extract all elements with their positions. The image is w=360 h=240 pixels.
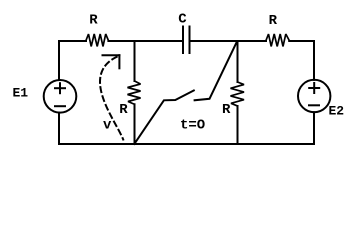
wire top-left segment [59, 40, 86, 42]
voltage source E1 [44, 80, 77, 113]
svg-text:t=O: t=O [180, 117, 205, 133]
voltage source E2 [298, 80, 330, 112]
switch right contact arm (to top node) [195, 42, 237, 101]
svg-text:E1: E1 [13, 86, 29, 101]
resistor R1 [86, 34, 108, 46]
resistor R2 [266, 34, 289, 46]
svg-text:C: C [178, 11, 187, 27]
wire top-right segment [289, 40, 314, 42]
wire mid-right stub top (top bus to R4) [237, 41, 239, 82]
wire right top (corner to E2) [313, 41, 315, 80]
wire bottom bus [59, 143, 314, 145]
arrow v head [103, 55, 120, 68]
capacitor C [183, 27, 190, 54]
wire mid-right stub bottom (R4 to bottom bus) [237, 106, 239, 144]
switch left blade (from bottom node) [134, 91, 194, 145]
wire top middle segment (R1 to capacitor) [108, 40, 182, 42]
wire mid-left stub bottom (R3 to bottom bus) [134, 104, 136, 144]
svg-text:R: R [89, 13, 98, 29]
svg-text:v: v [103, 118, 112, 134]
wire capacitor to R2 [191, 40, 267, 42]
wire right bottom (E2 to corner) [313, 112, 315, 144]
svg-text:R: R [119, 102, 128, 118]
svg-text:R: R [269, 13, 278, 29]
resistor R4 [231, 82, 245, 106]
arrow v dashed arc [100, 56, 123, 140]
resistor R3 [128, 81, 141, 104]
svg-text:R: R [222, 102, 231, 118]
wire mid-left stub top (top bus to R3) [134, 41, 136, 81]
svg-text:E2: E2 [329, 103, 345, 118]
wire left bottom (E1 to corner) [58, 113, 60, 144]
wire left top (corner to E1) [58, 41, 60, 80]
